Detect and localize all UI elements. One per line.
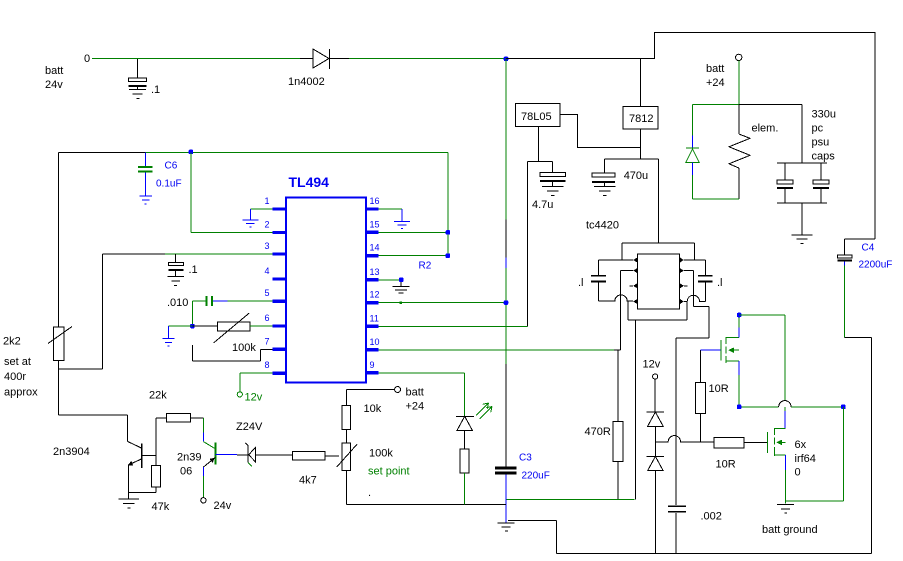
wire tc4420 ground interconnect [628, 301, 687, 500]
capacitor .002 [668, 506, 722, 553]
wire C3 ground to bottom rail [508, 521, 556, 554]
svg-text:C3: C3 [519, 453, 532, 464]
wire pot to bottom [346, 470, 506, 504]
svg-text:4: 4 [264, 266, 269, 276]
svg-text:4k7: 4k7 [299, 475, 317, 487]
junction E (pin14) [446, 253, 451, 258]
pin stubs TL494 right [366, 209, 379, 373]
svg-text:caps: caps [812, 151, 836, 163]
svg-text:10k: 10k [364, 403, 382, 415]
ground (pin3 cap) [167, 276, 184, 285]
svg-text:100k: 100k [232, 342, 256, 354]
resistor elem. (heater element) [729, 104, 778, 199]
wire elem bottom (green) [693, 198, 740, 200]
LED indicator [456, 403, 492, 449]
transistor Q2 6x irf640 [767, 428, 785, 503]
capacitor C3 220uF [495, 453, 550, 523]
svg-text:2200uF: 2200uF [859, 260, 893, 271]
wire pin13 [379, 279, 402, 281]
capacitor C4 2200uF [837, 239, 892, 270]
ground (pin13) [393, 282, 410, 293]
pin numbers TL494 right [370, 196, 380, 370]
regulator 78L05 [515, 104, 560, 127]
wire pin10 [379, 349, 621, 351]
transistor Q3 2n3904 [53, 442, 156, 493]
transistor Q1 mosfet driver stage [701, 315, 740, 405]
svg-text:+24: +24 [706, 77, 725, 89]
svg-text:C6: C6 [165, 161, 178, 172]
capacitor bank 330u pc psu caps [777, 104, 836, 234]
wire 7812 input lead [640, 59, 642, 107]
wire pin3 [59, 254, 273, 369]
svg-text:.010: .010 [167, 297, 188, 309]
svg-text:2n39: 2n39 [177, 452, 201, 464]
svg-text:6x: 6x [795, 439, 807, 451]
resistor 10R (gate pulldown) [696, 350, 729, 442]
svg-text:batt ground: batt ground [762, 524, 818, 536]
svg-text:Z24V: Z24V [236, 421, 263, 433]
wire right pin4 to cap (hop over pin2 net) [684, 295, 705, 301]
svg-text:.002: .002 [701, 511, 722, 523]
wire 78L05 input from 7812 [560, 114, 641, 147]
wire batt +24 down [738, 61, 740, 105]
diode bypass (green) [686, 104, 699, 199]
ground (C3) [498, 523, 515, 531]
wire pin14 [379, 255, 448, 257]
svg-text:+24: +24 [406, 401, 425, 413]
wire pin8 to 12v [240, 373, 272, 392]
wire left rail [58, 153, 60, 328]
wire top rail to right frame [506, 32, 875, 239]
diode zener Z24V [236, 421, 292, 467]
transistor Q4 2n3906 [177, 418, 237, 498]
svg-text:220uF: 220uF [522, 471, 550, 482]
wire batt to 10k [346, 390, 394, 406]
svg-text:.l: .l [717, 277, 723, 289]
wire drain drop to output fet [784, 315, 786, 411]
svg-text:0.1uF: 0.1uF [156, 179, 182, 190]
wire pin2 feedback [191, 153, 272, 233]
regulator 7812 [623, 107, 658, 130]
diode 1n4002 [288, 49, 330, 88]
wire elem top right (black) [739, 103, 802, 105]
node 0 (batt 24v input) [45, 53, 90, 91]
capacitor .1 (input filter) [129, 59, 161, 96]
pin bumps tc4420 left [633, 257, 638, 304]
svg-text:47k: 47k [152, 501, 170, 513]
ground (330u bank) [791, 235, 812, 244]
wire tc4420 supply [622, 159, 694, 260]
IC tc4420 [586, 220, 679, 309]
potentiometer 100k set point [337, 443, 410, 499]
pin stub tc4420 pin3 right [684, 285, 688, 287]
wire 7812 output lead [605, 129, 659, 159]
diode clamp upper [647, 412, 665, 456]
wire C6 top rail (green) [145, 152, 448, 154]
svg-text:12: 12 [370, 290, 380, 300]
svg-text:470u: 470u [624, 170, 648, 182]
svg-text:.1: .1 [151, 84, 160, 96]
svg-text:06: 06 [180, 466, 192, 478]
node 12v (pin8) [237, 392, 263, 404]
resistor 22k [149, 390, 203, 423]
svg-text:tc4420: tc4420 [586, 220, 619, 232]
svg-text:14: 14 [370, 243, 380, 253]
junction I (source bus left) [737, 405, 742, 410]
wire C4 to bottom rail [845, 266, 872, 554]
potentiometer 100k (pin6) [192, 313, 272, 354]
wire drain link (green) [739, 314, 785, 316]
wire pin15 [379, 231, 448, 233]
svg-text:8: 8 [264, 360, 269, 370]
labels 6x irf640 [795, 439, 816, 479]
svg-text:0: 0 [795, 467, 801, 479]
svg-text:10R: 10R [709, 383, 729, 395]
junction F (pin13) [399, 278, 404, 283]
wire 78L05 branch to pin11 net [527, 161, 529, 326]
junction A (diode output node) [504, 57, 509, 62]
wire left cap to pin4 (hop over pin2 net) [599, 295, 634, 301]
wire tc4420 pin1 right row [684, 259, 705, 261]
junction B (C6 node) [189, 150, 194, 155]
svg-text:100k: 100k [369, 448, 393, 460]
svg-text:C4: C4 [862, 243, 875, 254]
wire batt 24v line [92, 58, 506, 60]
resistor LED series [460, 449, 469, 505]
ground (4.7u) [542, 187, 564, 196]
wire pin16 [379, 208, 402, 210]
wire pin1 [250, 208, 272, 210]
svg-text:11: 11 [370, 313, 379, 323]
svg-text:22k: 22k [149, 390, 167, 402]
pin stub tc4420 pin3 left [629, 285, 633, 287]
svg-text:9: 9 [370, 360, 375, 370]
wire 78L05 output lead [528, 127, 553, 173]
capacitor .010 (pin5) [167, 296, 272, 309]
svg-text:7812: 7812 [629, 113, 653, 125]
wire pin5 node down [191, 301, 193, 326]
capacitor C6 0.1uF [138, 153, 182, 196]
wire pin7 loop [192, 345, 272, 361]
svg-text:R2: R2 [419, 261, 432, 272]
capacitor 470u [592, 159, 648, 186]
node batt +24 [706, 54, 742, 89]
ground (2n3904 emitter) [118, 493, 139, 508]
wire tc4420 pin1 left row [599, 259, 634, 261]
junction H (driver drain) [737, 313, 742, 318]
resistor 10R (gate series) [714, 438, 767, 471]
svg-text:1: 1 [264, 196, 269, 206]
svg-text:pc: pc [812, 123, 824, 135]
svg-text:400r: 400r [4, 371, 26, 383]
wire top left rail [59, 152, 146, 154]
svg-text:13: 13 [370, 267, 380, 277]
node batt +24 (10k feed) [395, 387, 425, 413]
svg-text:16: 16 [370, 196, 380, 206]
svg-text:5: 5 [264, 288, 269, 298]
svg-text:0: 0 [84, 53, 90, 65]
wire junction to ground [169, 325, 193, 327]
ground (pin1, blue) [242, 209, 258, 227]
wire tc4420 pin2 left to pin10 node [621, 271, 634, 350]
svg-text:psu: psu [812, 137, 830, 149]
svg-text:78L05: 78L05 [521, 111, 552, 123]
svg-text:approx: approx [4, 387, 38, 399]
svg-text:6: 6 [264, 313, 269, 323]
capacitor .l (tc4420 right) [698, 260, 723, 302]
wire pin11 [379, 325, 528, 327]
resistor 470R [585, 350, 624, 500]
diode clamp lower [647, 456, 665, 553]
svg-text:24v: 24v [45, 79, 63, 91]
svg-text:10: 10 [370, 337, 380, 347]
ground (470u) [594, 187, 616, 196]
resistor 4k7 [292, 452, 339, 487]
wire source return (green) [786, 407, 844, 501]
node 24v [201, 498, 232, 512]
capacitor .1 (pin3) [169, 254, 198, 276]
svg-text:15: 15 [370, 219, 380, 229]
wire pin9 [379, 373, 465, 416]
ground (output fet source) [777, 505, 794, 513]
wire main bus (diode node down to C3) [505, 59, 507, 467]
capacitor .l (tc4420 left) [578, 260, 606, 301]
svg-text:4.7u: 4.7u [532, 199, 553, 211]
wire R2 vertical [447, 153, 449, 256]
svg-text:10R: 10R [716, 459, 736, 471]
wire source bus (hop over drain drop) [739, 401, 843, 407]
wire tc4420 pin2 right loop [676, 271, 709, 505]
wire gate drive (hop over .002 net) [655, 436, 714, 442]
resistor 10k [342, 403, 382, 443]
svg-text:3: 3 [264, 241, 269, 251]
ground (pin5 node, blue) [163, 326, 175, 346]
ground (pin16, blue) [394, 209, 410, 229]
wire ground net (green) [506, 499, 635, 501]
capacitor 4.7u [532, 172, 565, 211]
potentiometer 2k2 [3, 327, 72, 399]
svg-text:irf64: irf64 [795, 453, 816, 465]
node 12v (driver supply) [643, 359, 661, 380]
wire left rail lower [59, 360, 128, 441]
junction G (pin12 node) [504, 300, 509, 305]
svg-text:1n4002: 1n4002 [288, 76, 325, 88]
IC TL494 [286, 174, 366, 382]
svg-text:2n3904: 2n3904 [53, 446, 90, 458]
wire 12v node down [654, 379, 656, 412]
junction K (pin12 wire mark) [400, 302, 402, 304]
svg-text:7: 7 [264, 336, 269, 346]
svg-text:batt: batt [706, 63, 724, 75]
svg-text:elem.: elem. [752, 123, 779, 135]
pin stubs TL494 left [272, 209, 286, 373]
svg-text:12v: 12v [245, 392, 263, 404]
svg-text:330u: 330u [812, 109, 836, 121]
svg-text:2: 2 [264, 220, 269, 230]
wire 22k to base divider [155, 418, 157, 466]
junction J (source bus right) [841, 405, 846, 410]
junction C (pin5/6 node) [190, 324, 195, 329]
svg-text:batt: batt [406, 387, 424, 399]
resistor 47k [152, 466, 170, 513]
pin bumps tc4420 right [679, 257, 684, 304]
junction D (pin15) [446, 230, 451, 235]
wire bottom rail [556, 552, 871, 554]
svg-text:.1: .1 [189, 264, 198, 276]
ground (input filter cap) [129, 90, 146, 99]
svg-text:set at: set at [4, 356, 31, 368]
svg-text:470R: 470R [585, 426, 611, 438]
svg-text:.: . [368, 487, 371, 499]
svg-text:12v: 12v [643, 359, 661, 371]
wire pin12 [379, 302, 506, 304]
wire elem left branch (green) [693, 103, 739, 105]
svg-text:set point: set point [368, 466, 410, 478]
svg-text:.l: .l [578, 277, 584, 289]
svg-text:TL494: TL494 [289, 174, 330, 190]
pin numbers TL494 left [264, 196, 269, 370]
svg-text:2k2: 2k2 [3, 336, 21, 348]
svg-text:batt: batt [45, 65, 63, 77]
svg-text:24v: 24v [214, 500, 232, 512]
ground (C6) [140, 196, 152, 204]
